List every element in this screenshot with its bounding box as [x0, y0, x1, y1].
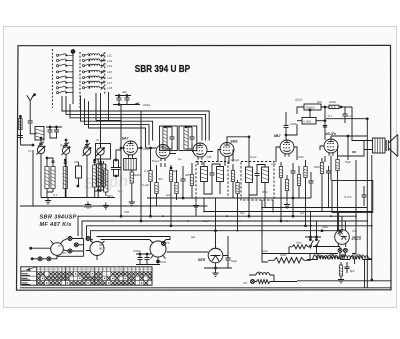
6A7 stage wires	[121, 105, 141, 208]
rectifier tube 2525	[335, 230, 350, 245]
wire VC3 leads	[86, 141, 88, 198]
coil labels L11-L17	[107, 54, 112, 91]
wires left coil group	[47, 158, 106, 198]
S2 label	[99, 243, 105, 251]
S1 labels	[58, 245, 67, 255]
svg-text:43.4²e: 43.4²e	[326, 132, 337, 136]
magic eye tube	[208, 248, 223, 263]
labels 6B7 area	[290, 98, 332, 127]
svg-text:47Ω: 47Ω	[271, 162, 276, 166]
svg-text:6D6: 6D6	[231, 139, 238, 143]
labels	[329, 100, 351, 118]
filter cap	[345, 262, 350, 273]
svg-text:6B7: 6B7	[274, 134, 281, 138]
coil top trimmers	[52, 161, 103, 163]
svg-text:4μF: 4μF	[300, 211, 305, 215]
coil L3	[51, 167, 55, 189]
label ADL	[122, 90, 151, 107]
table header marks	[38, 268, 151, 270]
svg-text:0,1MΩ: 0,1MΩ	[304, 119, 312, 123]
svg-text:0,1μF: 0,1μF	[142, 183, 149, 187]
rail cap	[343, 111, 348, 118]
bus wire 2	[66, 96, 206, 141]
switch bus junction	[71, 50, 75, 54]
IF2 box A (dashed)	[196, 162, 228, 199]
osc wires	[98, 159, 103, 198]
svg-text:50000: 50000	[133, 173, 141, 177]
resistor R6	[155, 183, 158, 194]
label 0,05uF	[133, 249, 167, 264]
svg-text:L16: L16	[107, 76, 112, 80]
S1 pin lamp 1	[68, 237, 72, 241]
gang section VC1	[37, 146, 46, 155]
svg-text:0,1μF: 0,1μF	[203, 219, 210, 223]
IF2 coil A1	[201, 167, 208, 182]
svg-text:425: 425	[185, 173, 190, 177]
6B7 grid cap C20	[284, 123, 289, 130]
coil L2	[45, 167, 49, 189]
trimmer cap C3	[54, 127, 59, 134]
svg-text:0,1: 0,1	[144, 169, 148, 173]
IF1 internal wires	[165, 127, 192, 149]
bus wire A	[78, 216, 356, 236]
6A7 shield box	[124, 159, 137, 171]
output transformer	[373, 138, 386, 153]
cap C10	[117, 95, 122, 102]
svg-text:4μμ: 4μμ	[60, 143, 65, 147]
osc coil Lb	[102, 164, 106, 186]
svg-text:1000: 1000	[290, 122, 297, 126]
resistor R8	[175, 183, 178, 194]
mains aerial filter chain (far left)	[18, 116, 34, 146]
svg-text:0,1: 0,1	[328, 114, 332, 118]
svg-text:6A7: 6A7	[99, 243, 104, 247]
tube T2 (1st IF)	[156, 145, 170, 162]
osc coil La	[96, 164, 100, 186]
svg-text:100: 100	[317, 100, 322, 104]
osc coil can	[96, 144, 111, 160]
gang section VC2	[62, 147, 71, 156]
rail resistor	[329, 105, 339, 108]
label 350	[262, 249, 286, 257]
tube 6A7	[124, 141, 138, 158]
junction dots left	[40, 137, 42, 139]
resistor R14	[279, 167, 282, 178]
antenna coil can L1	[35, 127, 44, 141]
table X marks	[37, 272, 152, 285]
bottom HT rail	[20, 254, 391, 288]
svg-text:25Z5: 25Z5	[351, 236, 362, 241]
grid cap C8	[111, 165, 116, 172]
resistor R5	[149, 171, 152, 182]
choke labels	[313, 253, 361, 257]
choke tie wire	[310, 254, 341, 261]
mains vertical wire	[371, 155, 373, 254]
IF2 internal wires A	[204, 162, 220, 194]
svg-text:1μF: 1μF	[118, 189, 123, 193]
padder cap P1	[76, 166, 82, 178]
socket S1	[51, 243, 64, 256]
43 grid resistor	[336, 160, 339, 171]
B+ rail wire	[331, 107, 367, 136]
bus wire E	[97, 237, 171, 240]
filter choke 2	[330, 257, 341, 260]
svg-text:6A7: 6A7	[122, 137, 129, 141]
svg-text:425: 425	[74, 160, 79, 164]
IF1 box A	[160, 126, 178, 151]
barretter resistor zigzag	[274, 258, 304, 264]
resistor R10	[231, 171, 234, 182]
S1 input wire	[31, 247, 51, 249]
svg-text:5ΜΩ: 5ΜΩ	[314, 165, 320, 169]
svg-text:ΔΣμΩ: ΔΣμΩ	[295, 98, 302, 102]
ground filter	[338, 277, 344, 283]
IF2 cap A1	[210, 170, 215, 177]
svg-text:50Π: 50Π	[107, 194, 113, 198]
antenna series cap	[28, 118, 33, 125]
svg-text:0,05μF: 0,05μF	[133, 249, 142, 253]
eye ground	[212, 270, 218, 276]
svg-text:L13: L13	[107, 59, 112, 63]
cluster wires	[113, 96, 140, 105]
table row labels	[22, 274, 31, 285]
dial lamp resistor row	[251, 280, 255, 284]
6A7 cathode resistor	[130, 172, 133, 183]
svg-text:8μF: 8μF	[350, 269, 355, 273]
socket S2	[90, 242, 104, 256]
bus risers	[121, 166, 342, 236]
S1 pin lamp 3	[68, 249, 72, 253]
filter choke 1	[318, 257, 329, 260]
svg-text:4μF: 4μF	[359, 253, 364, 257]
eye wires	[167, 231, 233, 270]
socket S3	[150, 241, 166, 257]
svg-text:46s: 46s	[341, 253, 346, 257]
wire top tie	[46, 127, 62, 138]
svg-text:L15: L15	[107, 70, 112, 74]
S3 pin x	[162, 242, 166, 246]
svg-text:6E5: 6E5	[198, 257, 206, 262]
scattered value labels	[28, 138, 356, 245]
ground G2	[85, 202, 91, 208]
label 50uF	[191, 235, 237, 263]
tone cap inside	[362, 192, 367, 199]
svg-text:3ΜΩ: 3ΜΩ	[262, 190, 268, 194]
left chassis wire	[20, 150, 208, 206]
S1 pin lamp 2	[74, 243, 78, 247]
grid stopper ticks	[323, 126, 327, 128]
bus wire D	[91, 231, 341, 242]
switch wafer dashed rail 2	[79, 52, 81, 108]
6D6 wires	[218, 137, 249, 166]
svg-text:MET: MET	[99, 247, 105, 251]
svg-text:30μ: 30μ	[240, 211, 245, 215]
eye cathode cap	[226, 255, 231, 262]
screen feed wire	[262, 207, 367, 209]
svg-text:25μF: 25μF	[345, 160, 351, 164]
svg-text:425: 425	[207, 155, 212, 159]
svg-text:L14: L14	[107, 64, 112, 68]
ground 6B7	[284, 202, 290, 208]
IF2 coil B1	[246, 167, 253, 183]
bottom rail wire	[41, 197, 115, 199]
resistor R16	[297, 175, 300, 186]
anode label	[124, 173, 149, 214]
gang section VC3	[83, 147, 92, 156]
bus wire 4	[81, 96, 153, 141]
svg-text:ΔΣ2μΩ: ΔΣ2μΩ	[231, 158, 239, 162]
IF2 cap B1	[255, 171, 260, 178]
gang section VC4	[96, 147, 105, 156]
resistor R7	[169, 171, 172, 182]
coil L5	[93, 165, 97, 187]
svg-text:ADΔL: ADΔL	[143, 103, 151, 107]
svg-text:0-17Α: 0-17Α	[344, 195, 352, 199]
43 cathode resistor	[320, 163, 323, 174]
coil bottom ties	[47, 190, 101, 192]
switch wafer dashed rail 1	[51, 49, 53, 108]
schematic border frame	[17, 45, 392, 290]
resistor R17	[304, 167, 307, 178]
IF1 coil A	[163, 127, 167, 149]
tube 6B7	[280, 140, 294, 157]
svg-text:L11: L11	[107, 54, 112, 58]
label 0,1	[53, 193, 113, 209]
gang trimmer T2	[63, 142, 69, 147]
svg-text:/μΩ: /μΩ	[191, 235, 195, 239]
speaker	[386, 135, 398, 157]
line filter zigzag	[289, 245, 311, 249]
top tie wire	[96, 120, 121, 122]
choke labels	[317, 253, 364, 257]
S2 pin	[86, 237, 90, 241]
tube T3	[193, 143, 207, 160]
antenna lead wire	[30, 126, 36, 134]
switch contacts column 1	[56, 54, 73, 94]
mains switch S (DPST)	[305, 236, 321, 253]
gang trimmer T3	[84, 143, 90, 148]
S1 phono pins	[38, 257, 42, 261]
resistor R11	[236, 183, 239, 194]
capacitor C23	[309, 178, 314, 185]
tube 6D6	[220, 143, 234, 160]
cap C11	[125, 95, 130, 102]
stage value labels	[144, 169, 190, 197]
43 wires	[320, 136, 338, 166]
tone network box	[332, 181, 373, 213]
switch contacts column 2 with band coils L11-L17	[82, 53, 104, 90]
HT vertical wire	[366, 119, 368, 288]
IF1 cap B	[190, 134, 195, 141]
osc coupling wires down from switch	[95, 93, 97, 121]
wire VC2 leads	[65, 140, 67, 198]
svg-text:MF 487 K/s: MF 487 K/s	[40, 222, 72, 228]
6B7 lower wires	[276, 160, 311, 201]
svg-text:1ΜΩ: 1ΜΩ	[298, 155, 304, 159]
network wires	[297, 107, 325, 140]
svg-text:50μμF: 50μμF	[152, 159, 160, 163]
svg-text:1μF: 1μF	[166, 193, 171, 197]
filter choke 2	[341, 256, 354, 259]
bus wire 1	[62, 96, 209, 141]
ground G1	[45, 198, 51, 204]
ground 6A7	[129, 199, 135, 205]
svg-text:2x1μF: 2x1μF	[84, 205, 93, 209]
alignment table	[21, 267, 152, 285]
filter choke 3	[356, 256, 369, 259]
svg-text:Seck: Seck	[296, 240, 302, 244]
svg-text:0,1: 0,1	[347, 114, 351, 118]
speaker feed wires	[338, 136, 373, 160]
AVC boxed resistor	[302, 118, 316, 125]
coil L7	[104, 170, 108, 192]
IF2 coil B2	[262, 167, 269, 183]
svg-text:0,1: 0,1	[28, 149, 32, 153]
svg-text:447: 447	[243, 281, 248, 285]
bus junction dots	[150, 207, 373, 232]
label 8uF	[350, 269, 355, 273]
resistor R9	[190, 175, 193, 186]
trimmer cap C2	[48, 127, 53, 134]
choke wires	[307, 260, 372, 289]
svg-text:0,5: 0,5	[352, 229, 356, 233]
filter resistor	[339, 265, 342, 276]
svg-text:50k: 50k	[172, 169, 177, 173]
table dots	[42, 273, 142, 284]
grid cap C9	[116, 165, 121, 172]
wafer rail 3 dashed	[104, 52, 106, 95]
table header pointer	[26, 268, 31, 271]
ground G3	[103, 203, 109, 209]
wire VC4 leads	[100, 143, 102, 164]
svg-text:L17: L17	[107, 81, 112, 85]
gang trimmer T1	[38, 142, 44, 147]
svg-text:0,1: 0,1	[53, 193, 58, 197]
svg-text:L18: L18	[107, 86, 112, 90]
svg-text:ΔΜΩ: ΔΜΩ	[322, 225, 328, 229]
coupling caps	[138, 255, 143, 262]
wire VC1 leads	[40, 138, 42, 198]
svg-text:SBR 394 U BP: SBR 394 U BP	[135, 64, 191, 75]
filter choke 1	[313, 256, 338, 259]
svg-text:70Ω: 70Ω	[124, 210, 129, 214]
svg-text:Seck: Seck	[262, 249, 268, 253]
B+ feed wire	[204, 211, 372, 213]
B+ vertical wire	[355, 160, 357, 254]
svg-text:50πF: 50πF	[160, 260, 167, 264]
bus wire C	[87, 226, 372, 241]
T2/T3 wires	[146, 148, 277, 206]
grid cap wires	[114, 150, 122, 176]
IF1 coil B	[184, 127, 188, 149]
bus wire 3	[70, 104, 202, 141]
rectifier pins	[338, 248, 342, 252]
6B7 top wires	[276, 112, 297, 162]
coil L4	[63, 167, 67, 189]
svg-text:300: 300	[158, 177, 163, 181]
bus wire B	[82, 221, 367, 239]
IF2 coil A2	[217, 167, 224, 182]
svg-text:6Γ5: 6Γ5	[165, 241, 170, 245]
ground T3	[193, 203, 199, 209]
capacitor C15	[181, 176, 186, 183]
IF2 internal wires B	[249, 162, 265, 195]
switch bus wire	[72, 52, 74, 105]
svg-text:0,1μF: 0,1μF	[250, 155, 257, 159]
coil L6	[99, 165, 103, 187]
svg-text:100Ω: 100Ω	[329, 100, 336, 104]
box label	[344, 195, 352, 199]
capacitor C22	[291, 168, 296, 175]
svg-text:425μ: 425μ	[143, 147, 149, 151]
mains bottom rail	[262, 254, 356, 263]
filter choke 3	[350, 257, 363, 260]
bus wire 5	[85, 99, 150, 146]
svg-text:50μF: 50μF	[231, 259, 237, 263]
svg-text:425: 425	[122, 90, 127, 94]
IF1 cap A	[170, 134, 175, 141]
tube 43	[324, 139, 338, 156]
svg-text:PU: PU	[63, 252, 67, 255]
IF1 box B	[179, 126, 197, 151]
bus wire 6	[89, 101, 146, 148]
svg-text:toμ: toμ	[178, 157, 182, 161]
plate boxed resistor	[304, 104, 321, 110]
svg-text:SBR 394USP: SBR 394USP	[40, 214, 77, 220]
43 bypass cap	[326, 168, 331, 175]
IF2 box B (dashed)	[241, 162, 274, 201]
S1 loop wires	[57, 239, 84, 257]
resistor R15	[285, 180, 288, 191]
